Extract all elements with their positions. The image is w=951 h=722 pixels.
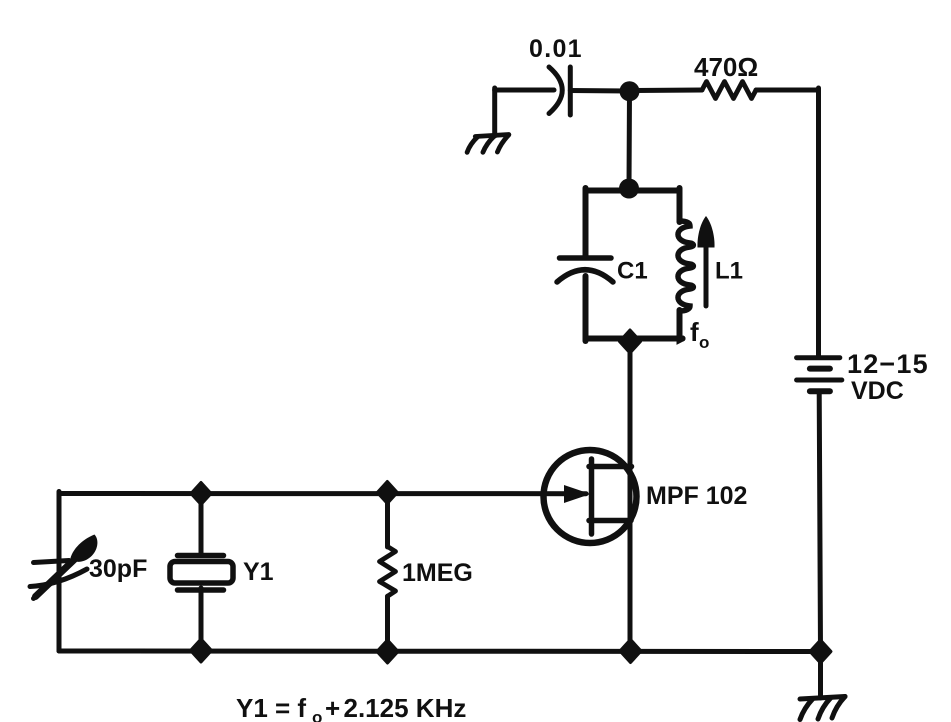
svg-text:+: + — [325, 693, 340, 722]
wire to bottom ground — [818, 652, 823, 699]
capacitor 0.01 flat plate — [568, 67, 573, 115]
inductor L1 coil — [678, 221, 693, 311]
wire top node down to tank — [627, 91, 633, 188]
svg-text:470Ω: 470Ω — [694, 52, 758, 82]
wire 1MEG top lead — [385, 492, 390, 547]
wire top-left horizontal to coupling cap — [495, 88, 554, 93]
gate arrow — [564, 485, 591, 503]
node: gate rail / crystal top — [191, 483, 211, 505]
svg-text:Y1 = f: Y1 = f — [236, 693, 306, 722]
svg-text:Y1: Y1 — [243, 558, 274, 586]
svg-text:12−15: 12−15 — [847, 349, 929, 379]
capacitor 0.01 curved plate — [549, 67, 562, 114]
resistor 470 ohm — [702, 82, 756, 99]
wire right rail lower segment — [819, 391, 820, 651]
svg-text:1MEG: 1MEG — [402, 559, 473, 587]
resistor 1MEG — [380, 547, 396, 597]
transistor Q1 MPF 102 body — [544, 450, 637, 543]
svg-text:2.125 KHz: 2.125 KHz — [344, 693, 467, 722]
ground rail (bottom) — [59, 649, 821, 655]
svg-text:30pF: 30pF — [89, 555, 147, 583]
wire resistor to right rail corner — [756, 88, 819, 93]
capacitor C1 flat plate — [560, 255, 612, 261]
svg-text:o: o — [699, 333, 709, 352]
wire right rail upper segment — [816, 88, 821, 356]
tuning arrow beside L1 — [704, 247, 709, 306]
wire 1MEG bottom lead — [385, 596, 390, 651]
crystal Y1 bottom plate — [178, 587, 224, 593]
wire crystal top lead — [199, 494, 204, 556]
node: source junction on ground rail — [620, 640, 641, 663]
svg-text:f: f — [690, 317, 699, 347]
wire tank left branch upper — [583, 188, 589, 256]
wire tank left branch lower — [583, 276, 589, 341]
node: right rail / ground junction — [810, 640, 831, 663]
wire top-left vertical drop to ground — [492, 88, 497, 136]
crystal Y1 body — [170, 562, 233, 584]
battery 12-15 VDC — [797, 358, 842, 392]
gate wire from left rail to transistor — [59, 491, 586, 496]
node: gate rail / 1MEG top — [377, 482, 397, 504]
ground (top left) — [467, 135, 509, 153]
svg-text:VDC: VDC — [851, 377, 904, 405]
left rail vertical — [57, 492, 62, 652]
node: tank top junction — [619, 179, 639, 199]
trimmer capacitor 30pF — [30, 556, 87, 599]
transistor drain bar — [589, 464, 632, 470]
transistor channel bar — [589, 459, 595, 534]
node: tank bottom junction — [620, 330, 641, 353]
wire top node to 470 ohm resistor — [630, 88, 703, 94]
node: crystal bottom on ground rail — [191, 639, 212, 662]
wire tank loop bottom — [586, 336, 683, 342]
transistor source bar — [589, 518, 631, 524]
node: 1MEG bottom on ground rail — [377, 640, 398, 663]
svg-text:L1: L1 — [715, 258, 743, 285]
wire from cap to top node — [570, 88, 629, 94]
wire tank right branch lower — [680, 310, 683, 340]
wire drain: tank to JFET and down to source rail — [628, 342, 633, 652]
svg-text:o: o — [312, 708, 322, 722]
capacitor C1 curved plate — [557, 270, 613, 282]
wire crystal bottom lead — [199, 588, 204, 650]
svg-text:C1: C1 — [617, 258, 648, 285]
wire tank loop top — [586, 188, 680, 194]
svg-text:0.01: 0.01 — [529, 35, 583, 63]
wire tank right branch upper — [677, 188, 683, 222]
crystal Y1 top plate — [178, 553, 224, 559]
node: top junction — [620, 81, 640, 101]
svg-text:MPF 102: MPF 102 — [646, 482, 747, 510]
ground (bottom right) — [800, 697, 845, 720]
